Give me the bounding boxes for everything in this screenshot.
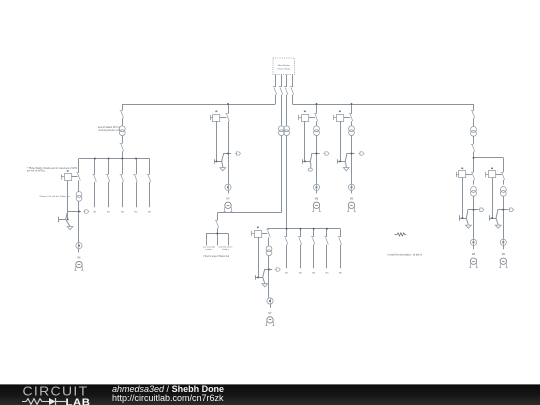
transformer T10 [266, 246, 272, 256]
wire center MCC drop 5 lower [340, 245, 342, 269]
svg-text:incoming feeder 1 kV: incoming feeder 1 kV [98, 129, 120, 132]
junction [78, 211, 80, 213]
meter P1 [76, 243, 82, 249]
wire [122, 151, 124, 158]
wire [503, 180, 505, 185]
wire [228, 121, 230, 184]
wire [473, 152, 475, 158]
contact K1.1 [76, 173, 80, 181]
breaker Q7 [284, 237, 288, 245]
wire feeder 8 drop [316, 104, 318, 114]
wire center feeder [286, 228, 288, 230]
wire branch [67, 211, 81, 213]
wire relay K12 link [466, 174, 472, 176]
svg-text:i tested the schematics , ok t: i tested the schematics , ok tide in [388, 253, 423, 256]
junction [473, 157, 475, 159]
wire right main drop [473, 104, 475, 111]
wire center MCC drop 3 lower [313, 245, 315, 269]
svg-text:( Tied in way of Stator fed: ( Tied in way of Stator fed [203, 255, 230, 258]
wire relay K7 link [220, 117, 226, 119]
junction [473, 209, 475, 211]
junction [268, 269, 270, 271]
node flag N12 [478, 208, 484, 211]
wire [351, 191, 353, 194]
wire cross link [218, 212, 282, 214]
transformer T2 [279, 126, 285, 136]
wire right feeder 13 [503, 158, 505, 173]
label aux left [203, 247, 215, 252]
relay K1 coil [62, 170, 72, 180]
breaker CB6 [120, 144, 124, 152]
wire MCC drop 4 lower [136, 182, 138, 207]
junction [286, 228, 288, 230]
wire [78, 201, 80, 242]
contact K10.1 [266, 230, 270, 238]
wire relay K9 link [344, 117, 350, 119]
wire branch [264, 269, 272, 271]
wire left feeder drop [122, 104, 124, 111]
svg-text:* TB be Totally 2 blocks and i: * TB be Totally 2 blocks and in movement… [27, 167, 78, 170]
junction [351, 103, 353, 105]
relay K12 coil [456, 168, 466, 178]
bus left MCC [79, 158, 150, 160]
wire branch [312, 153, 320, 155]
junction [227, 153, 229, 155]
wire lead 4 from source box [292, 75, 294, 88]
wire center MCC drop 2 [300, 229, 302, 237]
label aux right [219, 247, 233, 252]
relay K7 coil [210, 111, 220, 122]
wire [473, 136, 475, 144]
motor M9 [347, 202, 356, 211]
wire [473, 246, 475, 250]
note annotation top-left [27, 167, 78, 173]
node flag N8 [323, 152, 329, 155]
junction [316, 103, 318, 105]
wire [217, 213, 219, 221]
node flag N7 [235, 152, 241, 155]
wire MCC drop 2 [108, 159, 110, 175]
transformer T11 [471, 127, 477, 137]
wire right feeder 12 [473, 158, 475, 173]
relay K8 contact 2 [303, 121, 312, 165]
wire [345, 165, 347, 167]
junction [135, 158, 137, 160]
breaker Q3 [120, 175, 124, 182]
transformer T1 label [98, 126, 121, 132]
wire middle feeder B down [286, 136, 288, 229]
breaker CB1 [273, 87, 277, 95]
wire center MCC drop 2 lower [300, 245, 302, 269]
breaker CB2 [279, 87, 283, 95]
wire MCC drop 3 [122, 159, 124, 175]
junction [108, 158, 110, 160]
svg-text:Main Station: Main Station [278, 64, 291, 67]
junction [351, 153, 353, 155]
junction [491, 217, 493, 219]
relay K13 coil [486, 168, 496, 178]
wire center MCC drop 4 [326, 229, 328, 237]
wire branch [347, 153, 355, 155]
relay K1 contact 2 [59, 181, 71, 227]
svg-text:feed of station 415 Vs: feed of station 415 Vs [98, 126, 121, 129]
wire [316, 121, 318, 126]
wire lead 1 lower [275, 95, 277, 104]
wire feeder 7 drop [228, 104, 230, 114]
relay K10 contact 2 [255, 237, 264, 284]
footer bar [0, 384, 540, 405]
wire lead 3 lower [286, 95, 288, 126]
wire middle feeder A down [281, 136, 283, 213]
wire [270, 304, 272, 308]
transformer T12 [471, 187, 477, 197]
breaker CB3 [284, 87, 288, 95]
meter P12 [470, 239, 476, 245]
ground [220, 168, 226, 171]
contact K12.1 [471, 173, 475, 180]
wire [351, 136, 353, 184]
junction [216, 233, 218, 235]
wire MCC drop 5 lower [149, 182, 151, 207]
breaker Q8 [298, 237, 302, 245]
contact K8.1 [314, 114, 318, 122]
svg-text:aer line of deTect.: aer line of deTect. [27, 170, 45, 173]
wire lead 2 from source box [281, 75, 283, 88]
relay K12 contact 2 [460, 178, 469, 225]
junction [216, 160, 218, 162]
relay K10 coil [252, 227, 262, 238]
ground [262, 284, 268, 287]
breaker CB5 [120, 111, 124, 119]
breaker CB8 [471, 145, 475, 152]
svg-text:i Rotate / list self the Yello: i Rotate / list self the Yellow one [39, 195, 71, 198]
lamp L1 [308, 168, 312, 171]
wire MCC drop 2 lower [108, 182, 110, 207]
wire [503, 196, 505, 239]
junction [461, 217, 463, 219]
wire [268, 238, 270, 246]
wire [351, 121, 353, 126]
svg-text:feeders: feeders [206, 249, 213, 251]
junction [257, 276, 259, 278]
wire [217, 228, 219, 234]
source box V1 (dashed) [273, 58, 295, 75]
transformer T9 [349, 126, 355, 136]
wire aux drop 3 [228, 234, 230, 246]
node flag N1 [83, 210, 89, 213]
motor M7 [224, 202, 233, 211]
wire MCC drop 1 [94, 159, 96, 175]
wire center MCC drop 1 [286, 229, 288, 237]
wire center MCC drop 1 lower [286, 245, 288, 269]
wire relay K10 link [262, 233, 268, 235]
wire branch [468, 209, 478, 211]
ground [495, 225, 501, 228]
junction [67, 218, 69, 220]
motor M8 [312, 202, 321, 211]
wire center MCC drop 4 lower [326, 245, 328, 269]
wire [78, 249, 80, 253]
wire lead 3 from source box [286, 75, 288, 88]
wire branch [223, 153, 231, 155]
breaker CB7 [471, 111, 475, 119]
wire relay feeder drop [78, 159, 80, 173]
junction [299, 228, 301, 230]
wire [228, 191, 230, 194]
wire center MCC drop 5 [340, 229, 342, 237]
motor M9 [499, 258, 508, 268]
contact K9.1 [349, 114, 353, 122]
meter P10 [267, 298, 273, 304]
breaker Q2 [106, 175, 110, 182]
motor M8 [469, 258, 478, 268]
relay K9 contact 2 [338, 121, 347, 165]
bus left segment [122, 104, 275, 106]
wire relay K13 link [496, 174, 502, 176]
ground [343, 168, 349, 171]
wire [473, 180, 475, 185]
svg-text:Power Intake: Power Intake [277, 68, 291, 71]
wire [122, 118, 124, 126]
wire [473, 118, 475, 126]
meter P7 [225, 184, 231, 190]
contact K7.1 [225, 114, 229, 122]
wire [503, 246, 505, 250]
svg-text:CIRCUIT: CIRCUIT [23, 385, 89, 399]
breaker Q10 [324, 237, 328, 245]
motor M7 [266, 317, 275, 326]
wire relay K8 link [309, 117, 315, 119]
breaker Q11 [338, 237, 342, 245]
junction [502, 209, 504, 211]
meter P9 [348, 184, 354, 190]
wire [310, 165, 312, 168]
junction [316, 153, 318, 155]
relay K13 contact 2 [489, 178, 498, 225]
wire MCC drop 5 [149, 159, 151, 175]
junction [121, 158, 123, 160]
breaker Q6 [215, 221, 219, 228]
wire lead 1 from source box [275, 75, 277, 88]
wire [316, 191, 318, 194]
node flag N9 [358, 152, 364, 155]
relay K7 contact 2 [214, 121, 223, 165]
transformer T4 [76, 192, 82, 202]
wire lead 2 lower [281, 95, 283, 126]
wire [316, 136, 318, 184]
junction [304, 160, 306, 162]
node flag N13 [508, 208, 514, 211]
contact K13.1 [501, 173, 505, 180]
note resistor doodle [395, 233, 407, 236]
junction [227, 103, 229, 105]
wire center MCC drop 3 [313, 229, 315, 237]
transformer T3 [284, 126, 290, 136]
breaker Q1 [92, 175, 96, 182]
meter P8 [313, 184, 319, 190]
motor M6 [75, 261, 84, 270]
wire lead 4 lower [292, 95, 294, 104]
relay K8 coil [299, 111, 309, 122]
junction [339, 160, 341, 162]
bus right segment [292, 104, 473, 106]
bus aux [206, 233, 228, 235]
transformer T1 [119, 126, 125, 136]
breaker Q4 [133, 175, 137, 182]
ground [67, 227, 73, 230]
relay K9 coil [334, 111, 344, 122]
CircuitLab logo [21, 383, 97, 405]
wire MCC drop 4 [136, 159, 138, 175]
meter P13 [500, 239, 506, 245]
wire aux drop 2 [217, 234, 219, 246]
svg-text:feeders: feeders [222, 249, 229, 251]
junction [313, 228, 315, 230]
junction [94, 158, 96, 160]
wire branch [498, 209, 508, 211]
ground [466, 225, 472, 228]
source box label [277, 64, 291, 70]
bus right sub [474, 157, 504, 159]
wire relay K1 link [71, 176, 77, 178]
wire [78, 180, 80, 191]
wire feeder 9 drop [351, 104, 353, 114]
breaker Q9 [311, 237, 315, 245]
transformer T8 [314, 126, 320, 136]
wire [268, 256, 270, 298]
wire MCC drop 3 lower [122, 182, 124, 207]
wire [122, 136, 124, 144]
junction [326, 228, 328, 230]
bus center MCC [267, 228, 340, 230]
node flag N10 [275, 268, 281, 271]
svg-text:LAB: LAB [66, 398, 91, 405]
transformer T13 [500, 187, 506, 197]
wire [473, 196, 475, 239]
breaker Q5 [147, 175, 151, 182]
wire MCC drop 1 lower [94, 182, 96, 207]
wire [222, 165, 224, 167]
breaker CB4 [290, 87, 294, 95]
wire aux drop 1 [206, 234, 208, 246]
